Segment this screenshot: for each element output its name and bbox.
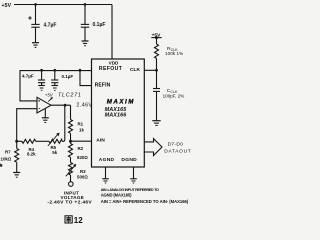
potentiometer R3 500 — [66, 163, 89, 180]
svg-text:5k: 5k — [52, 150, 57, 155]
node AIN dot — [69, 140, 72, 143]
svg-text:MAXIM: MAXIM — [107, 99, 135, 106]
ground DGND — [130, 179, 137, 183]
svg-text:820Ω: 820Ω — [77, 155, 88, 160]
wire R1 bottom — [70, 133, 72, 141]
node +5V terminal bar — [151, 37, 161, 39]
bus arrow D7-D0 — [144, 139, 191, 156]
ground under C4 — [52, 86, 59, 91]
node dot C4 — [53, 69, 56, 72]
svg-text:VOLTAGE: VOLTAGE — [60, 195, 84, 200]
node 2.46V label — [76, 103, 92, 109]
svg-text:100pF, 2%: 100pF, 2% — [163, 94, 185, 99]
svg-text:R2: R2 — [78, 146, 84, 151]
svg-text:AGND: AGND — [99, 157, 115, 163]
node dot REFIN branch — [79, 69, 82, 72]
wire AGND stub — [105, 167, 107, 179]
svg-text:2.46V: 2.46V — [76, 103, 92, 109]
svg-text:500Ω: 500Ω — [77, 174, 88, 179]
ground under C2 — [82, 41, 89, 46]
svg-text:D7-D0: D7-D0 — [168, 142, 184, 148]
wire op-amp output — [51, 104, 71, 106]
svg-text:1k: 1k — [79, 127, 84, 132]
potentiometer R5 5k — [48, 133, 62, 155]
svg-text:REFIN: REFIN — [95, 82, 111, 88]
svg-text:MAX166: MAX166 — [105, 112, 128, 118]
ground under R7 — [13, 173, 20, 178]
svg-text:AIN: AIN — [96, 137, 105, 143]
svg-text:R7: R7 — [5, 150, 11, 155]
wire REFOUT rail — [20, 70, 92, 72]
capacitor C3 4.7uF — [22, 70, 45, 85]
svg-text:AIN = AIN+ REFERENCED TO AIN-: AIN = AIN+ REFERENCED TO AIN- (MAX166) — [101, 199, 189, 204]
wire op-amp +input — [20, 70, 37, 101]
resistor R2 820 — [69, 141, 89, 162]
svg-text:DGND: DGND — [121, 157, 137, 163]
node junction dot C2 top — [84, 3, 87, 6]
svg-text:4.7µF: 4.7µF — [22, 74, 34, 79]
ground op-amp — [42, 109, 49, 123]
svg-text:DATAOUT: DATAOUT — [164, 149, 191, 155]
wire CLK pin — [144, 69, 156, 71]
wire DGND stub — [133, 167, 135, 179]
node dot C3 — [40, 69, 43, 72]
resistor RCLK 100k — [155, 44, 184, 58]
svg-text:R3: R3 — [80, 169, 86, 174]
svg-text:TLC271: TLC271 — [58, 93, 82, 99]
svg-text:12: 12 — [74, 216, 83, 225]
svg-text:REFOUT: REFOUT — [99, 66, 123, 72]
wire AIN — [71, 140, 92, 142]
capacitor CCLK 100pF — [153, 70, 184, 120]
ground under C3 — [38, 86, 45, 91]
ground under C1 — [32, 43, 39, 48]
wire VDD drop — [111, 5, 113, 60]
node junction dot C1 top — [34, 3, 37, 6]
wire feedback R5 to output — [62, 105, 65, 141]
svg-text:8.2k: 8.2k — [27, 152, 36, 157]
svg-text:+5V: +5V — [45, 93, 54, 98]
svg-text:R1: R1 — [78, 122, 84, 127]
svg-text:0.1µF: 0.1µF — [62, 74, 74, 79]
node CLK dot — [155, 69, 158, 72]
node +5V top label — [2, 3, 12, 9]
ground AGND — [102, 179, 109, 183]
ground CCLK — [152, 121, 160, 126]
svg-text:AIN = ANALOG INPUT REFERRED TO: AIN = ANALOG INPUT REFERRED TO — [101, 188, 159, 192]
input terminal circle — [70, 175, 72, 182]
note text input voltage — [47, 190, 92, 205]
note text AIN definitions — [101, 188, 189, 204]
IC U2 MAX165/MAX166 — [92, 59, 145, 167]
capacitor C1 4.7uF — [28, 5, 56, 43]
node output dot 2.46V — [64, 104, 67, 107]
wire REFIN link — [80, 71, 92, 86]
wire RCLK to CLK node — [156, 58, 158, 70]
caption figure 12 — [65, 216, 83, 225]
node feedback dot — [15, 140, 18, 143]
svg-text:4.7µF: 4.7µF — [44, 23, 57, 29]
resistor R7 10k — [1, 141, 19, 172]
capacitor C4 0.1uF — [51, 70, 73, 85]
svg-text:0.1µF: 0.1µF — [93, 22, 106, 28]
svg-text:+5V: +5V — [2, 3, 12, 9]
op-amp U1 TLC271 — [37, 93, 82, 114]
svg-text:AGND (MAX165): AGND (MAX165) — [101, 193, 132, 198]
resistor R1 1k — [69, 120, 85, 134]
svg-text:10kΩ: 10kΩ — [1, 156, 12, 161]
wire op-amp -input — [17, 109, 37, 142]
wire R1 top — [70, 105, 72, 119]
svg-text:100k 1%: 100k 1% — [165, 51, 183, 56]
smudge left edge — [0, 164, 3, 168]
node +5V right label — [152, 32, 161, 38]
svg-text:-2.46V TO +2.46V: -2.46V TO +2.46V — [47, 200, 92, 206]
capacitor C2 0.1uF — [81, 5, 106, 41]
wire +5V top rail — [14, 4, 112, 6]
resistor R4 8.2k — [17, 139, 49, 156]
wire +5V to RCLK — [156, 38, 158, 44]
svg-text:CLK: CLK — [130, 67, 141, 73]
